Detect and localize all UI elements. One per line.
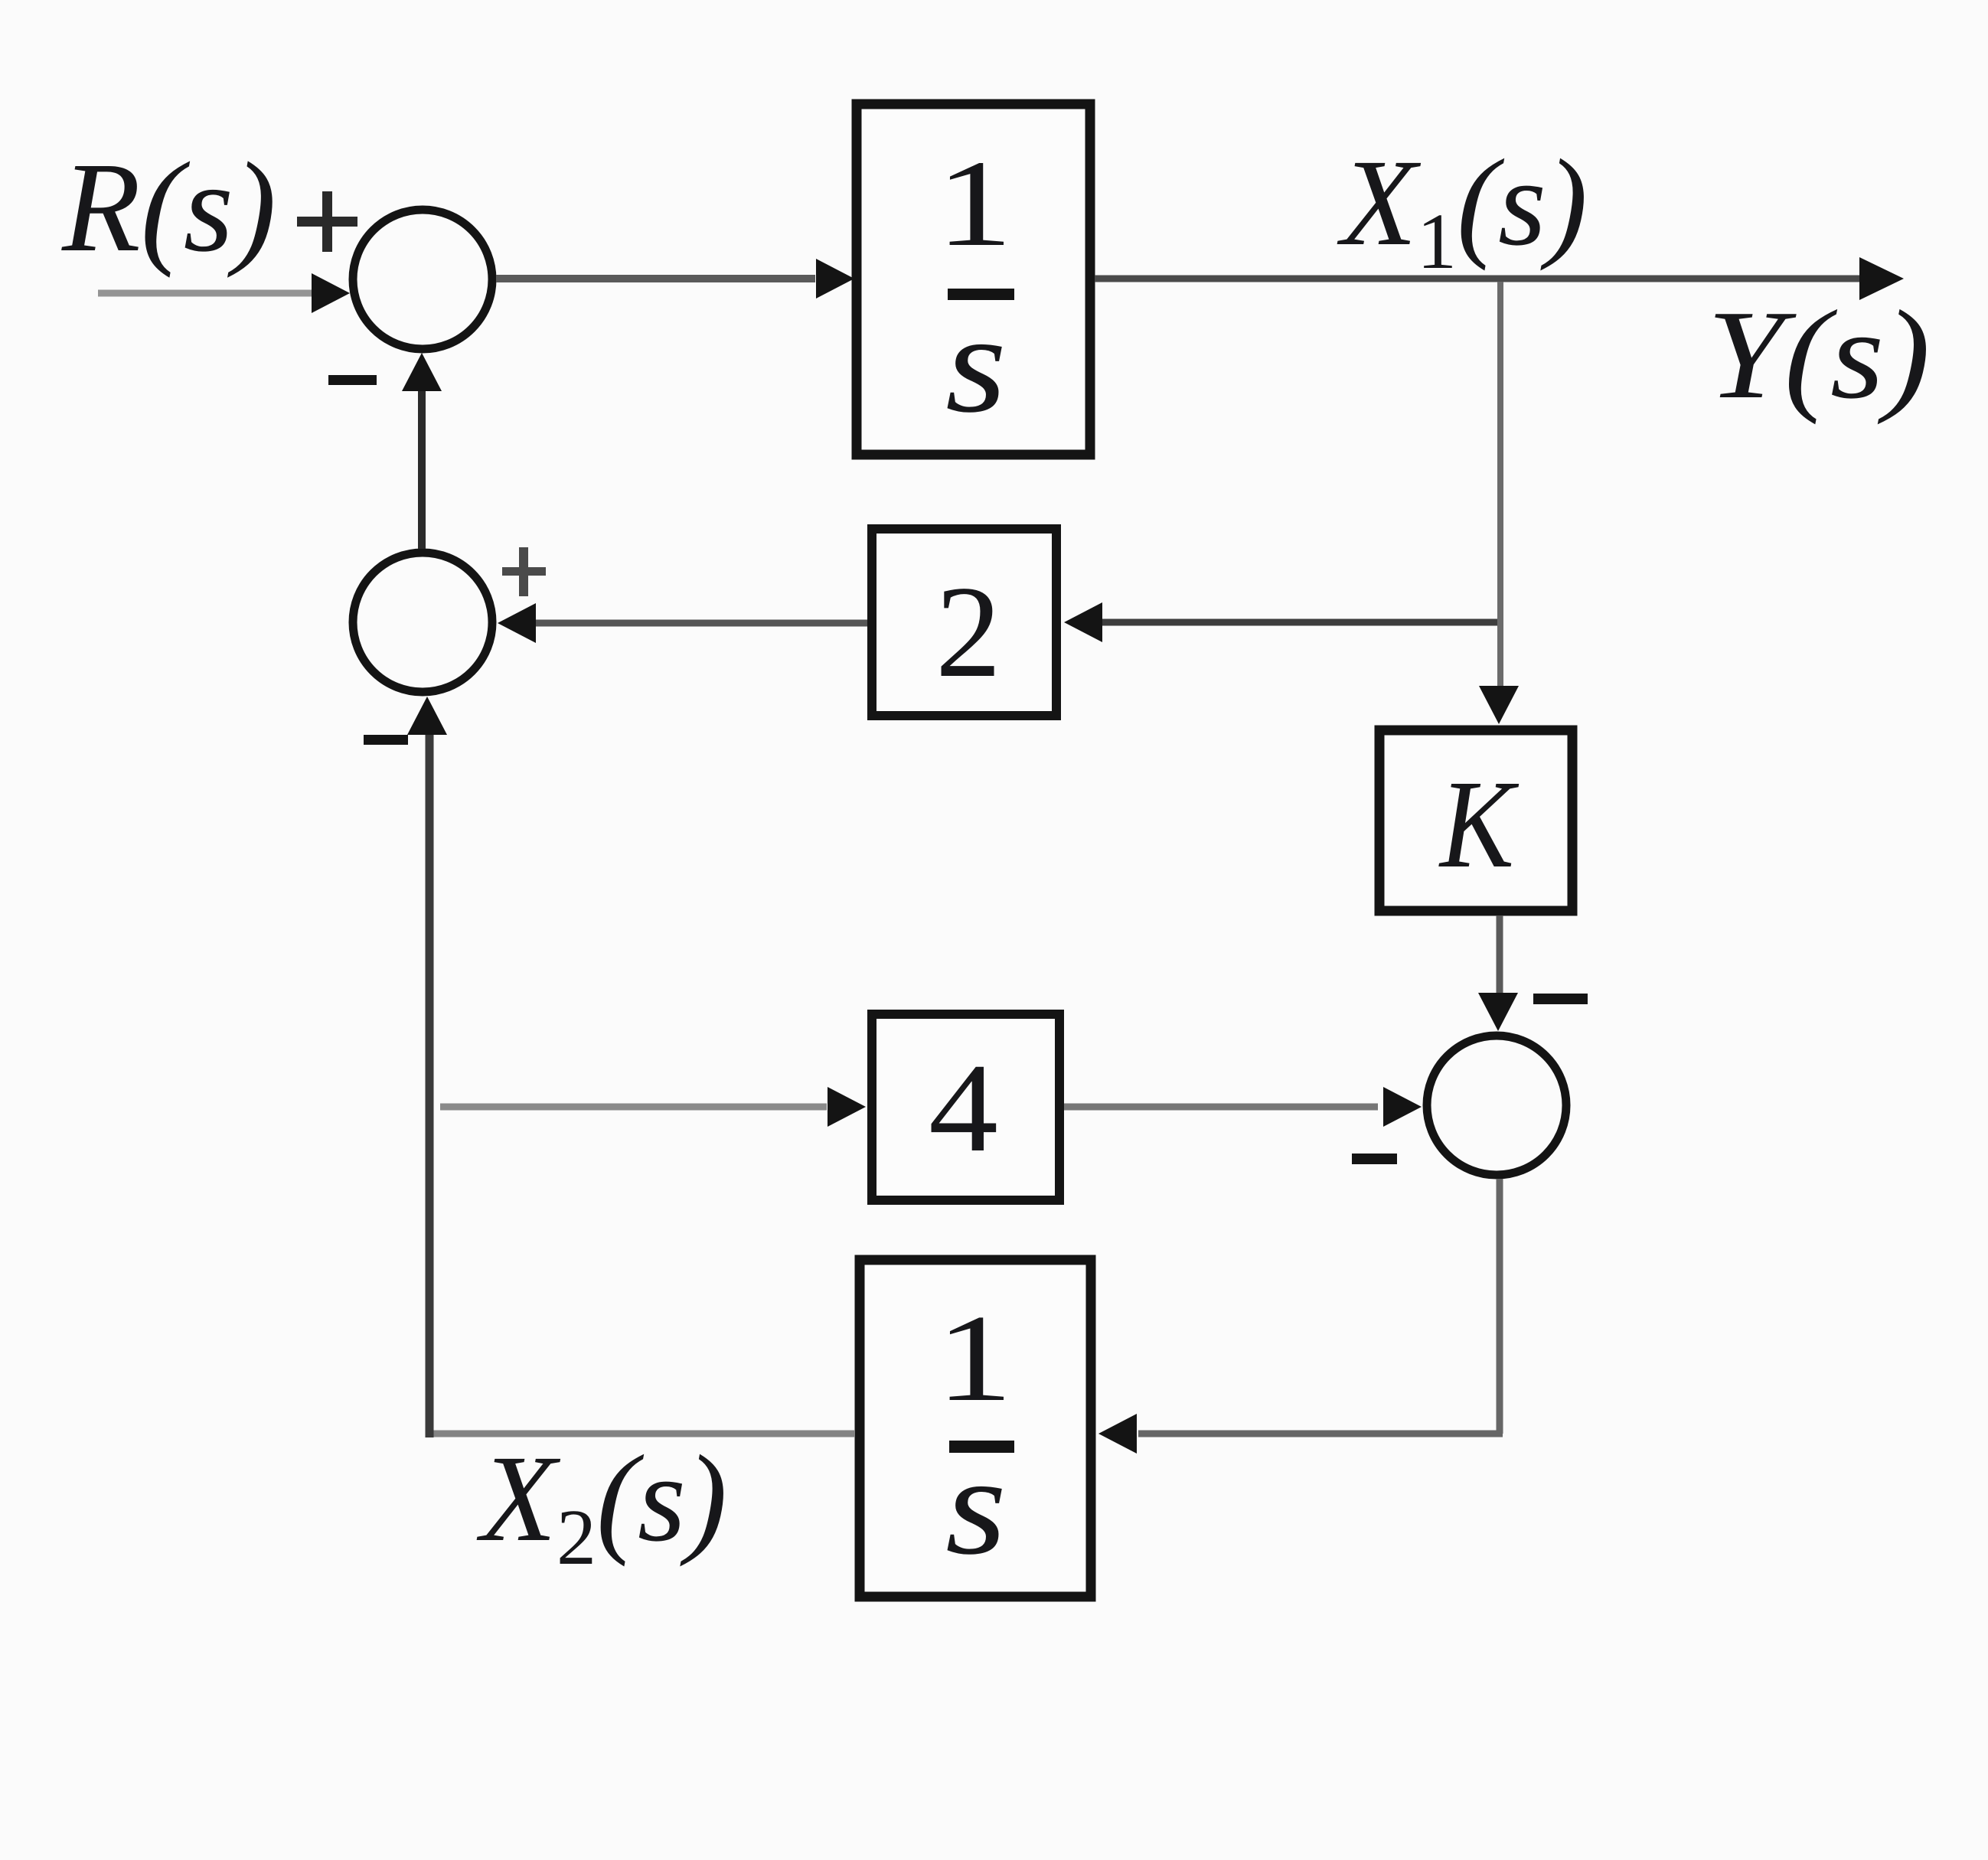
svg-text:2: 2	[935, 560, 1001, 705]
svg-text:s: s	[945, 1428, 1007, 1584]
svg-text:s: s	[945, 286, 1007, 442]
svg-text:X1(s): X1(s)	[1337, 135, 1588, 286]
arrowhead into S2 bottom	[407, 697, 447, 735]
wire branch from X2 feedback to block 4	[440, 1104, 827, 1111]
minus sign at S3 top input	[1533, 994, 1588, 1004]
plus sign at S2 input from block 2	[502, 547, 546, 596]
wire X2 feedback vertical up to S2	[426, 731, 434, 1437]
minus sign at S1 bottom input	[328, 375, 377, 385]
plus sign at S1 input	[297, 191, 357, 252]
arrowhead into block 1/s	[816, 259, 854, 299]
wire S2 output up to S1	[418, 387, 426, 549]
minus sign at S2 bottom input	[364, 735, 408, 745]
wire S3 output left to integrator block 1/s (bottom)	[1138, 1431, 1503, 1437]
arrowhead into summing junction S1	[312, 273, 350, 313]
wire S1 to integrator block 1/s	[496, 275, 815, 282]
svg-text:K: K	[1438, 754, 1520, 894]
svg-text:1: 1	[936, 1290, 1013, 1428]
wire branch from X1 drop line to block 2	[1102, 619, 1497, 626]
svg-text:X2(s): X2(s)	[476, 1431, 727, 1581]
svg-text:Y(s): Y(s)	[1707, 284, 1931, 426]
arrowhead into block 2 right side	[1064, 602, 1102, 642]
integrator block G1 value 1/s (top)	[857, 104, 1090, 455]
wire block 4 to S3	[1064, 1104, 1378, 1111]
arrowhead at Y(s) output	[1859, 257, 1904, 300]
wire branch from X1(s) down to K	[1497, 282, 1503, 689]
summing junction S3	[1427, 1036, 1566, 1175]
arrowhead into S2 right side	[498, 603, 536, 643]
node Y(s) label	[1707, 284, 1931, 426]
gain block G2 value 2	[872, 529, 1056, 716]
arrowhead into block 4 left side	[828, 1087, 866, 1127]
arrowhead into bottom 1/s right side	[1098, 1414, 1137, 1454]
wire S3 output down	[1497, 1179, 1503, 1434]
arrowhead into block K top	[1479, 686, 1519, 724]
wire K output down to summing junction S3	[1497, 915, 1503, 995]
minus sign at S3 left input	[1352, 1154, 1397, 1164]
summing junction S1	[353, 210, 492, 349]
arrowhead into S3 top	[1478, 993, 1518, 1031]
wire block 2 to summing junction S2	[536, 620, 867, 627]
summing junction S2	[353, 553, 492, 692]
wire bottom 1/s output left (X2 feedback)	[426, 1431, 855, 1437]
svg-text:4: 4	[929, 1037, 998, 1178]
wire R(s) input line	[98, 290, 322, 297]
integrator block G5 value 1/s (bottom)	[860, 1260, 1091, 1597]
wire X1(s) output line to Y(s)	[1095, 276, 1865, 282]
svg-text:R(s): R(s)	[61, 136, 276, 279]
arrowhead into S3 left side	[1383, 1087, 1422, 1127]
gain block G4 value 4	[872, 1014, 1059, 1200]
arrowhead into S1 bottom	[402, 353, 442, 391]
svg-text:1: 1	[936, 135, 1013, 272]
gain block G3 value K	[1379, 730, 1572, 911]
